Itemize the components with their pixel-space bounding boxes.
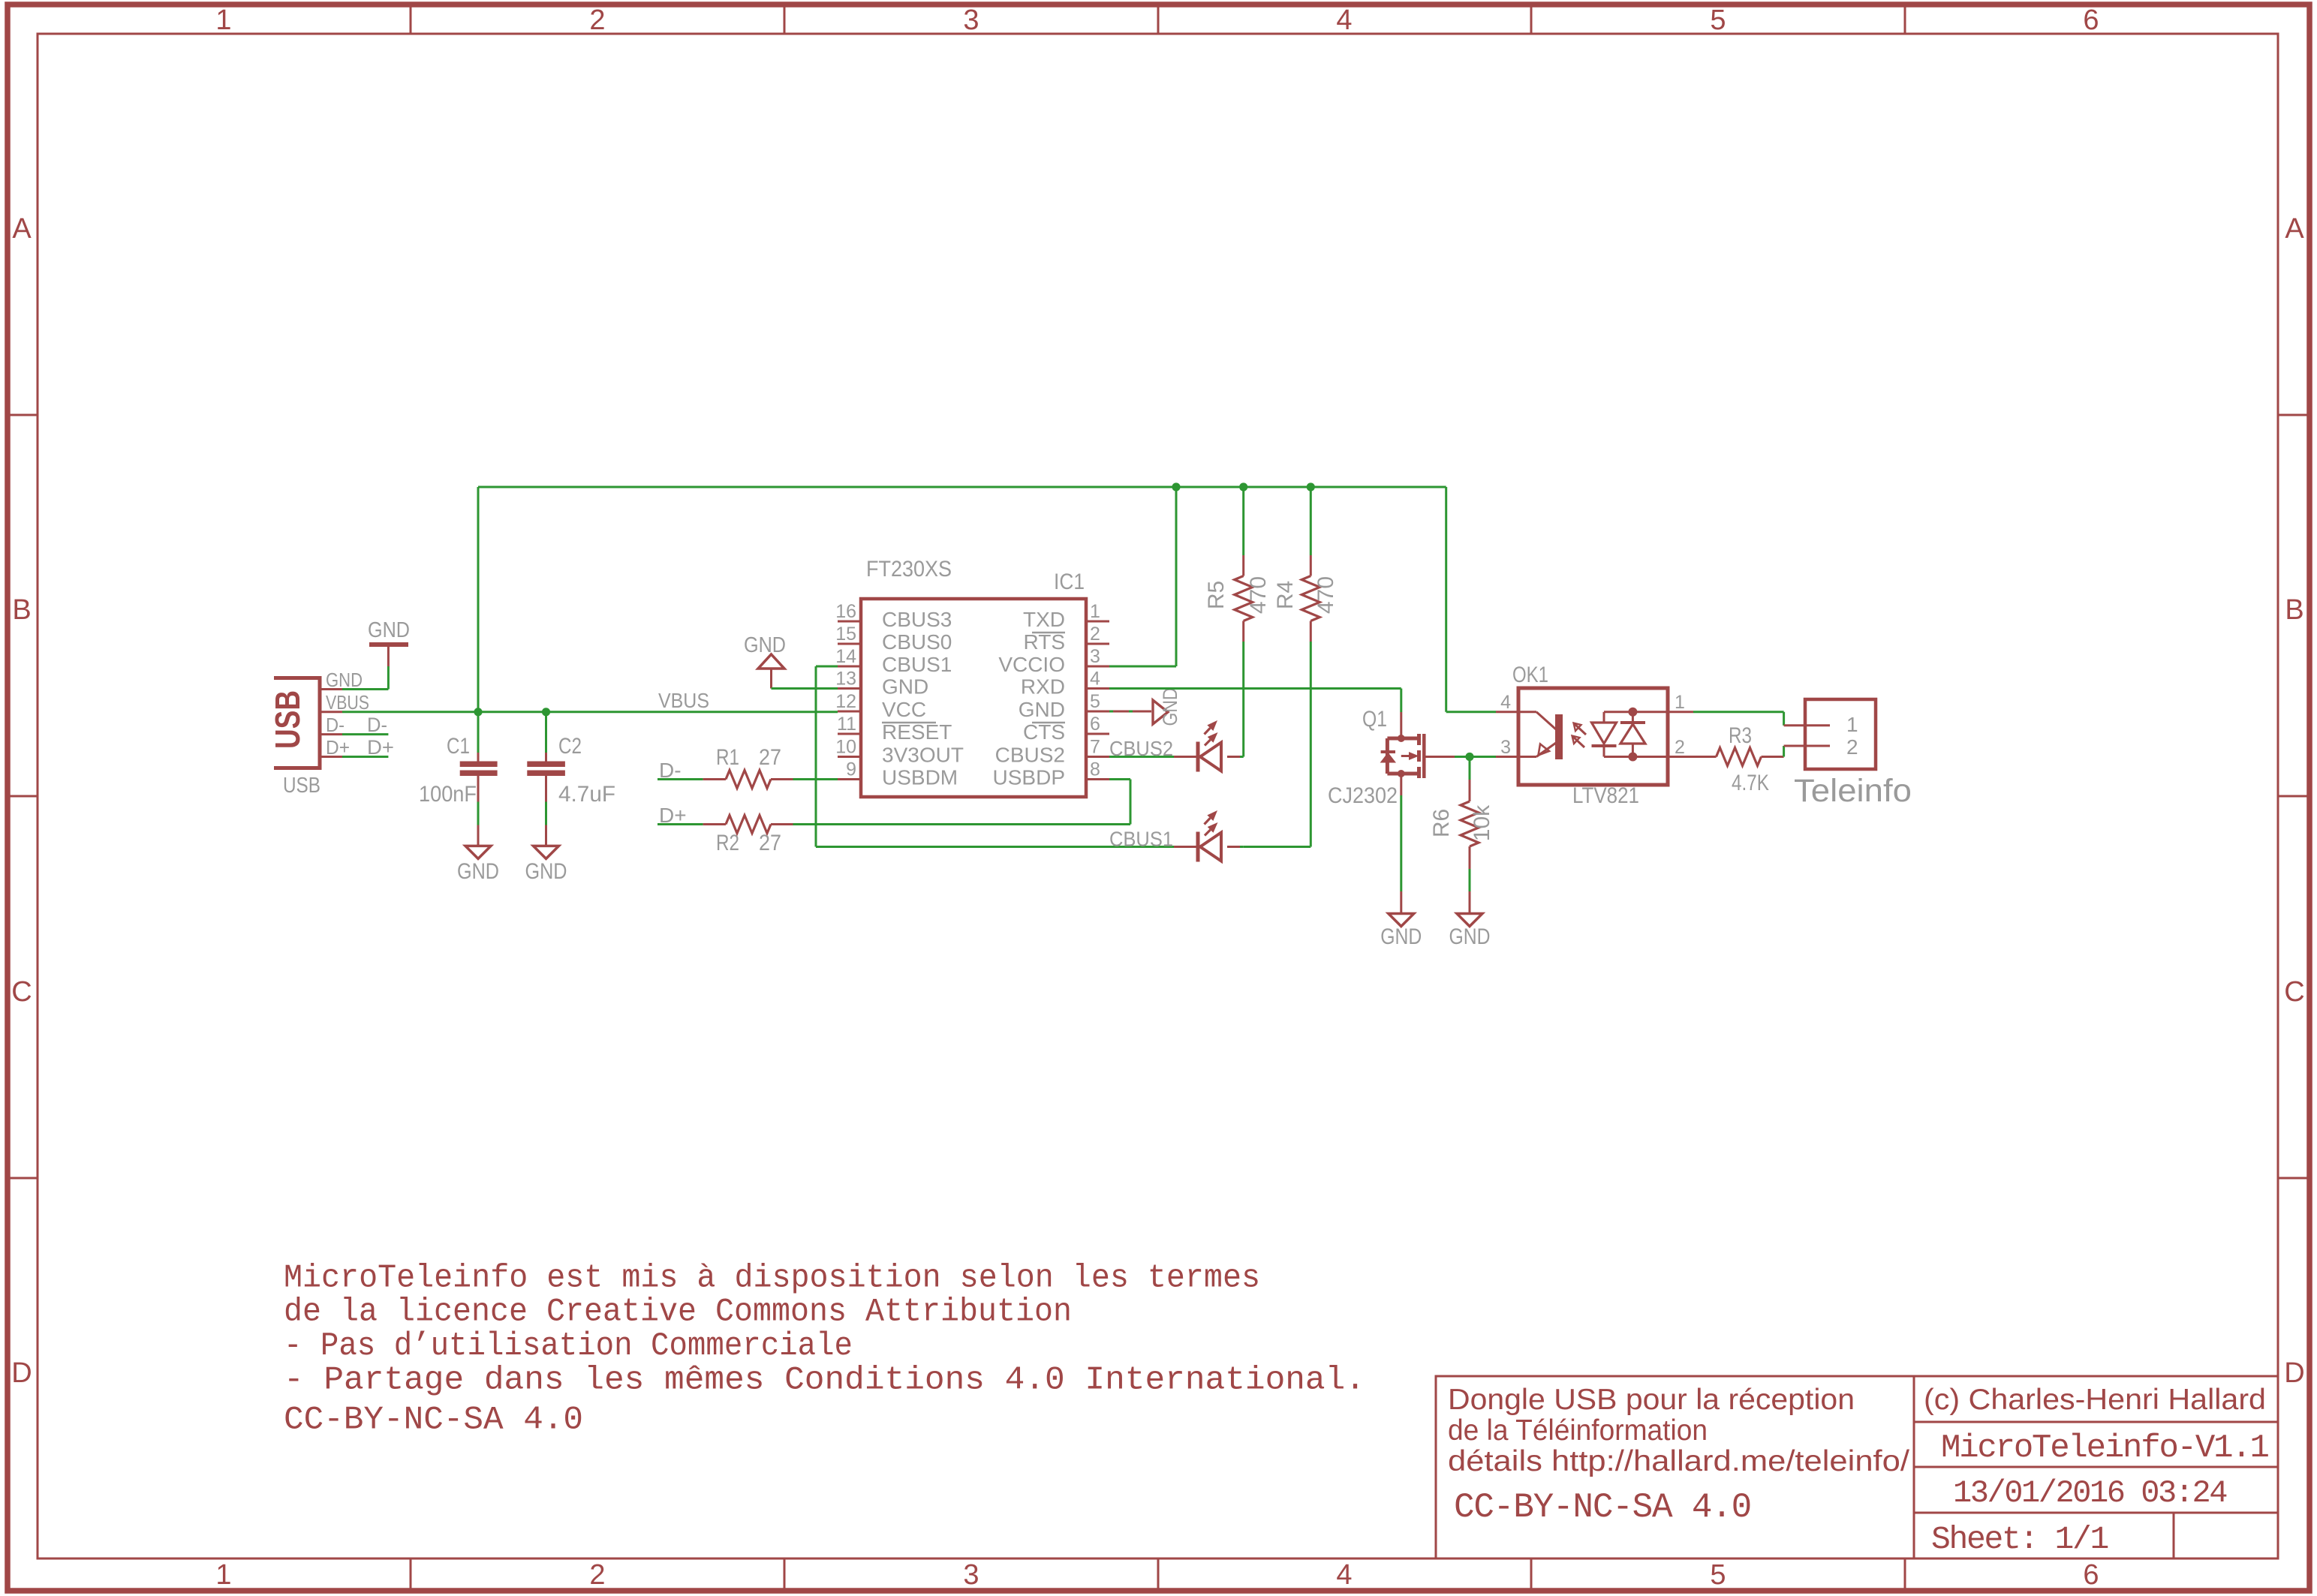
wire bus right riser <box>1445 487 1447 712</box>
svg-text:C2: C2 <box>558 734 582 759</box>
svg-text:4.7uF: 4.7uF <box>558 782 615 807</box>
svg-text:CTS: CTS <box>1023 720 1065 744</box>
frame row labels <box>11 213 2304 1389</box>
wire VBUS riser at C1 <box>477 487 480 712</box>
svg-text:R5: R5 <box>1204 581 1229 609</box>
svg-text:12: 12 <box>835 691 856 712</box>
svg-text:- Partage dans les mêmes Condi: - Partage dans les mêmes Conditions 4.0 … <box>284 1362 1365 1399</box>
svg-text:13/01/2016 03:24: 13/01/2016 03:24 <box>1953 1475 2227 1511</box>
wire junction to OK1 pin3 <box>1470 756 1496 758</box>
ground GND (up triangle) near IC pin 13 <box>744 633 786 689</box>
connector USB pin names <box>326 669 369 759</box>
svg-text:B: B <box>12 594 31 626</box>
svg-text:1: 1 <box>215 5 231 36</box>
svg-text:D: D <box>2284 1357 2304 1389</box>
svg-text:détails http://hallard.me/tele: détails http://hallard.me/teleinfo/ <box>1448 1445 1909 1477</box>
svg-text:2: 2 <box>589 5 605 36</box>
ground GND under Q1 <box>1380 914 1422 950</box>
title block description text <box>1448 1384 1909 1527</box>
svg-text:CBUS2: CBUS2 <box>1109 737 1173 760</box>
svg-text:CBUS0: CBUS0 <box>882 630 952 654</box>
svg-text:A: A <box>12 213 32 245</box>
OK1 pin 3 stub <box>1496 756 1518 758</box>
wire USB GND net <box>342 666 388 690</box>
wire R3 jog to Teleinfo pin2 <box>1783 746 1785 757</box>
svg-text:B: B <box>2285 594 2303 626</box>
capacitor C1 <box>419 712 498 807</box>
svg-text:R3: R3 <box>1729 723 1752 748</box>
svg-text:OK1: OK1 <box>1512 663 1548 687</box>
ground GND under R6 <box>1449 914 1491 950</box>
IC1 right pin names <box>993 608 1065 789</box>
Teleinfo pin 1 <box>1784 724 1830 726</box>
wire R1 to IC pin 9 <box>793 778 838 780</box>
svg-text:8: 8 <box>1090 759 1100 780</box>
svg-text:4: 4 <box>1500 692 1511 713</box>
svg-text:4: 4 <box>1336 5 1352 36</box>
svg-text:4: 4 <box>1090 669 1100 690</box>
svg-text:470: 470 <box>1313 576 1338 614</box>
svg-text:3: 3 <box>963 1559 979 1591</box>
junction bus/R4 <box>1307 482 1315 491</box>
svg-text:11: 11 <box>837 714 856 735</box>
svg-text:10: 10 <box>835 737 856 758</box>
svg-text:CBUS3: CBUS3 <box>882 608 952 631</box>
svg-text:RESET: RESET <box>882 720 952 744</box>
IC1 right pin numbers <box>1090 601 1100 780</box>
wire CBUS2 from IC pin 7 <box>1109 756 1174 758</box>
wire D- to R1 <box>657 778 703 780</box>
svg-text:VCCIO: VCCIO <box>998 653 1065 676</box>
svg-text:GND: GND <box>1159 688 1181 726</box>
svg-text:2: 2 <box>1846 735 1858 759</box>
wire C1 to GND <box>477 802 480 846</box>
OK1 input LED pair <box>1592 708 1669 762</box>
svg-text:5: 5 <box>1710 1559 1726 1591</box>
wire R6 to GND <box>1469 869 1471 914</box>
LED CBUS1 <box>1174 810 1244 862</box>
resistor R6 10k <box>1429 757 1494 870</box>
OK1 light arrows <box>1572 723 1587 748</box>
IC1 right pin stubs <box>1086 621 1109 780</box>
svg-text:GND: GND <box>368 618 410 642</box>
connector USB pin stubs <box>321 690 342 757</box>
junction bus/R5 <box>1239 482 1247 491</box>
svg-text:GND: GND <box>326 669 363 691</box>
svg-text:R1: R1 <box>716 745 739 770</box>
transistor Q1 CJ2302 <box>1328 707 1455 808</box>
IC1 left pin names <box>882 608 964 789</box>
svg-text:9: 9 <box>846 759 856 780</box>
svg-text:Dongle USB pour la réception: Dongle USB pour la réception <box>1448 1384 1855 1416</box>
ground GND under C1 <box>457 846 499 884</box>
svg-text:(c) Charles-Henri Hallard: (c) Charles-Henri Hallard <box>1924 1384 2266 1416</box>
wire GND to IC pin 13 <box>772 687 838 690</box>
wire Q1 source to GND <box>1400 774 1402 914</box>
svg-text:A: A <box>2285 213 2304 245</box>
license text block <box>284 1260 1365 1439</box>
svg-text:- Pas d’utilisation Commercial: - Pas d’utilisation Commerciale <box>284 1327 853 1365</box>
wire VBUS from USB to IC pin 12 <box>342 711 838 713</box>
svg-text:5: 5 <box>1090 691 1100 712</box>
svg-text:4: 4 <box>1336 1559 1352 1591</box>
svg-text:RTS: RTS <box>1024 630 1066 654</box>
IC IC1 FT230XS box <box>861 599 1086 797</box>
wire D- stub at USB <box>342 733 388 735</box>
resistor R1 27 <box>703 745 793 789</box>
svg-text:VCC: VCC <box>882 698 926 721</box>
junction at C2 <box>542 708 550 716</box>
svg-text:R4: R4 <box>1273 581 1298 609</box>
svg-text:1: 1 <box>1090 601 1100 622</box>
ground GND under C2 <box>525 846 567 884</box>
svg-text:D-: D- <box>367 714 387 736</box>
connector Teleinfo box <box>1805 699 1876 769</box>
svg-text:de la Téléinformation: de la Téléinformation <box>1448 1414 1708 1447</box>
svg-text:100nF: 100nF <box>419 782 477 807</box>
junction Q1 gate / R6 / OK1 pin3 <box>1465 753 1473 761</box>
svg-text:LTV821: LTV821 <box>1572 783 1639 808</box>
optocoupler OK1 LTV821 box <box>1518 688 1668 785</box>
svg-text:16: 16 <box>835 601 856 622</box>
wire VCCIO drop <box>1109 487 1176 666</box>
svg-text:6: 6 <box>1090 714 1100 735</box>
wire R5 to CBUS2 LED <box>1242 642 1244 757</box>
svg-text:Sheet: 1/1: Sheet: 1/1 <box>1931 1521 2108 1558</box>
svg-text:GND: GND <box>457 859 499 884</box>
svg-text:RXD: RXD <box>1021 675 1065 699</box>
svg-text:470: 470 <box>1246 576 1271 614</box>
svg-text:3: 3 <box>1500 737 1511 758</box>
svg-text:14: 14 <box>835 646 856 667</box>
resistor R5 470 <box>1204 487 1271 642</box>
svg-text:GND: GND <box>525 859 567 884</box>
OK1 pin 1 stub <box>1668 711 1693 713</box>
wire Q1 gate to junction <box>1455 756 1470 758</box>
svg-text:1: 1 <box>1846 713 1858 736</box>
junction at C1 <box>474 708 482 716</box>
svg-text:R2: R2 <box>716 831 739 855</box>
svg-text:VBUS: VBUS <box>658 689 709 712</box>
svg-text:VBUS: VBUS <box>326 691 369 714</box>
svg-text:27: 27 <box>759 831 781 855</box>
OK1 phototransistor <box>1518 712 1563 759</box>
svg-text:1: 1 <box>215 1559 231 1591</box>
wire OK1 pin1 to Teleinfo pin1 <box>1693 712 1784 726</box>
svg-text:2: 2 <box>1090 624 1100 645</box>
IC1 left pin numbers <box>835 601 856 780</box>
svg-text:D-: D- <box>326 714 345 736</box>
svg-text:USB: USB <box>283 774 320 798</box>
wire R4 to CBUS1 line <box>1310 642 1312 847</box>
svg-text:2: 2 <box>589 1559 605 1591</box>
wire CBUS1 from IC pin 14 <box>816 666 1174 847</box>
OK1 pin 2 stub <box>1668 756 1693 758</box>
wire RXD from IC pin 4 to Q1 gate riser <box>1109 689 1401 713</box>
wire bus to OK1 pin4 <box>1446 711 1496 713</box>
svg-text:C1: C1 <box>447 734 470 759</box>
resistor R3 4.7K <box>1717 723 1784 795</box>
svg-text:CBUS2: CBUS2 <box>995 744 1065 767</box>
svg-text:27: 27 <box>759 745 781 770</box>
title block frame <box>1436 1376 2278 1558</box>
svg-text:CC-BY-NC-SA 4.0: CC-BY-NC-SA 4.0 <box>1454 1488 1751 1527</box>
svg-text:C: C <box>2284 976 2304 1008</box>
svg-text:USBDP: USBDP <box>993 766 1065 789</box>
svg-text:13: 13 <box>835 669 856 690</box>
svg-text:C: C <box>11 976 32 1008</box>
resistor R4 470 <box>1273 487 1338 642</box>
svg-text:3: 3 <box>963 5 979 36</box>
svg-text:10k: 10k <box>1470 804 1494 841</box>
svg-text:CBUS1: CBUS1 <box>1109 828 1173 851</box>
svg-text:FT230XS: FT230XS <box>866 557 952 582</box>
svg-text:1: 1 <box>1675 692 1685 713</box>
svg-text:IC1: IC1 <box>1054 570 1085 594</box>
capacitor C2 <box>527 712 615 807</box>
IC1 left pin stubs <box>838 621 861 780</box>
svg-text:3V3OUT: 3V3OUT <box>882 744 964 767</box>
svg-text:3: 3 <box>1090 646 1100 667</box>
wire D+ stub at USB <box>342 756 388 758</box>
Teleinfo pin 2 <box>1784 745 1830 747</box>
wire C2 to GND <box>545 802 547 846</box>
svg-text:GND: GND <box>882 675 928 699</box>
svg-text:de la licence Creative Commons: de la licence Creative Commons Attributi… <box>284 1294 1072 1331</box>
junction bus/VCCIO <box>1172 482 1180 491</box>
svg-text:CJ2302: CJ2302 <box>1328 783 1398 808</box>
LED CBUS2 <box>1174 720 1244 772</box>
OK1 pin 4 stub <box>1496 711 1518 713</box>
svg-text:6: 6 <box>2083 5 2099 36</box>
svg-text:CC-BY-NC-SA 4.0: CC-BY-NC-SA 4.0 <box>284 1402 583 1439</box>
wire CBUS1 LED to R4 <box>1244 846 1311 848</box>
svg-text:Teleinfo: Teleinfo <box>1794 773 1912 809</box>
svg-text:GND: GND <box>1380 924 1422 949</box>
svg-text:15: 15 <box>835 624 856 645</box>
wire D+ to R2 <box>657 823 703 825</box>
svg-text:2: 2 <box>1675 737 1685 758</box>
connector USB <box>268 676 321 770</box>
svg-text:TXD: TXD <box>1023 608 1065 631</box>
svg-text:D: D <box>11 1357 32 1389</box>
svg-text:D+: D+ <box>326 736 350 759</box>
svg-text:R6: R6 <box>1429 809 1454 837</box>
svg-text:USB: USB <box>268 690 307 749</box>
svg-text:4.7K: 4.7K <box>1732 771 1769 795</box>
svg-text:D+: D+ <box>367 736 394 759</box>
svg-text:MicroTeleinfo-V1.1: MicroTeleinfo-V1.1 <box>1941 1429 2268 1467</box>
wire OK1 pin2 to R3 <box>1693 756 1717 758</box>
svg-text:CBUS1: CBUS1 <box>882 653 952 676</box>
svg-text:Q1: Q1 <box>1362 707 1387 732</box>
ground GND arrow at IC pin 5 <box>1109 688 1181 726</box>
svg-text:MicroTeleinfo est mis à dispos: MicroTeleinfo est mis à disposition selo… <box>284 1260 1260 1297</box>
svg-text:7: 7 <box>1090 737 1100 758</box>
svg-text:GND: GND <box>744 633 786 657</box>
svg-text:GND: GND <box>1019 698 1065 721</box>
svg-text:6: 6 <box>2083 1559 2099 1591</box>
svg-text:USBDM: USBDM <box>882 766 958 789</box>
svg-text:5: 5 <box>1710 5 1726 36</box>
wire R2 to IC pin 8 <box>793 780 1131 825</box>
svg-text:GND: GND <box>1449 924 1491 949</box>
wire VBUS top bus <box>478 486 1446 488</box>
resistor R2 27 <box>703 816 793 856</box>
ground GND (bar) near USB <box>368 618 410 666</box>
